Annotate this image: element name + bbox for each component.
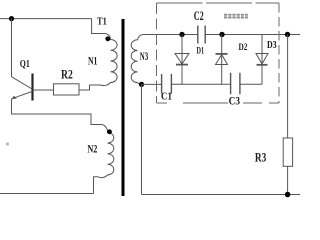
capacitor C1: [142, 74, 172, 94]
svg-text:D2: D2: [239, 43, 248, 53]
wire top-left horizontal: [0, 18, 92, 20]
transformer T1 secondary winding N3: [131, 35, 143, 85]
diode D2: [216, 35, 228, 85]
svg-text:N3: N3: [140, 49, 148, 63]
diode D1: [175, 35, 189, 85]
wire N3 junction down to bottom rail: [141, 84, 143, 194]
transformer T1 primary winding N1: [79, 19, 117, 90]
svg-text:C2: C2: [194, 9, 204, 23]
speck artifact: [6, 142, 9, 145]
diode D3: [256, 35, 268, 85]
wire left vertical (collector feed): [11, 19, 13, 77]
svg-text:D1: D1: [197, 47, 205, 57]
dashed box right edge: [278, 3, 280, 103]
node N2 polarity dot: [107, 129, 112, 134]
svg-text:C1: C1: [161, 91, 172, 103]
dashed box bottom edge: [157, 102, 280, 104]
dashed box voltage-doubler rectifier top edge: [157, 2, 280, 4]
wire bottom-right rail: [142, 194, 301, 196]
node top-left junction: [9, 16, 14, 21]
svg-text:Q1: Q1: [20, 59, 30, 70]
wire C2 to right edge (top bus): [206, 34, 301, 36]
svg-text:R2: R2: [61, 68, 73, 82]
node N3 bottom junction: [139, 82, 144, 87]
wire C1 to C3 lower bus: [172, 83, 231, 85]
transformer T1 feedback winding N2: [94, 125, 114, 194]
wire emitter down and across to N2: [12, 99, 103, 125]
svg-text:D3: D3: [267, 40, 277, 51]
node output top junction: [285, 32, 290, 37]
label chinese caption 倍压整流电路: [224, 14, 248, 19]
transistor Q1: [11, 74, 53, 101]
transformer core: [122, 19, 125, 196]
svg-text:C3: C3: [229, 96, 241, 108]
node N1 polarity dot: [105, 36, 110, 41]
svg-text:N1: N1: [88, 54, 97, 68]
capacitor C3: [231, 73, 262, 94]
node D1 top junction: [179, 32, 184, 37]
svg-text:T1: T1: [97, 16, 107, 27]
capacitor C2: [198, 26, 205, 44]
svg-text:R3: R3: [255, 150, 266, 164]
svg-text:N2: N2: [87, 144, 97, 156]
wire bottom-left rail: [0, 193, 94, 195]
wire N3 top to C2: [143, 34, 197, 36]
resistor R3: [283, 35, 292, 195]
resistor R2: [54, 84, 101, 95]
node D2 top junction: [219, 32, 224, 37]
node output bottom junction: [285, 192, 291, 198]
dashed box left edge: [156, 3, 158, 103]
